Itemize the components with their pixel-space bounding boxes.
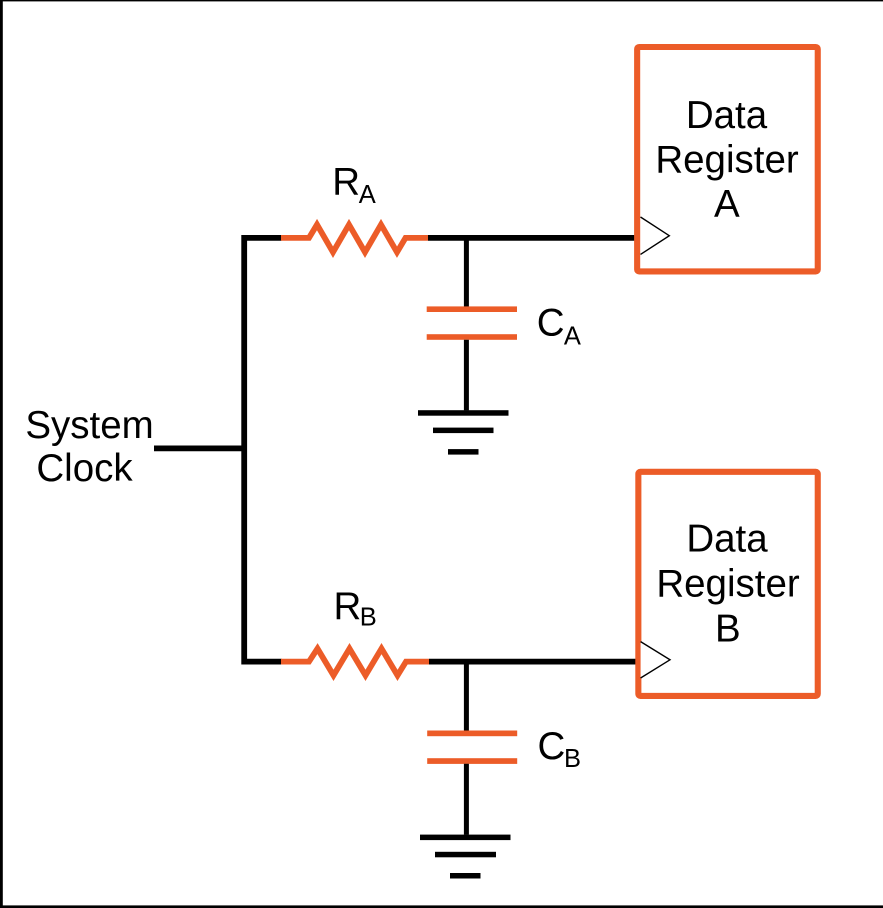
svg-text:R: R [332,161,360,204]
resistor RB [281,649,429,676]
svg-text:C: C [537,302,565,345]
label CB [538,725,582,773]
capacitor CB [427,731,517,764]
label "Data Register A" [655,94,799,226]
svg-text:Clock: Clock [36,447,133,490]
wire: capacitor CB to ground [464,764,469,835]
ground (branch B) [420,835,511,879]
svg-text:A: A [714,183,740,226]
clock input triangle (register A) [641,217,670,254]
svg-text:B: B [715,607,741,650]
svg-text:B: B [564,745,581,773]
svg-text:C: C [538,725,566,768]
node A: junction wire down to capacitor CA [464,238,469,307]
label CA [537,302,581,351]
svg-text:B: B [360,604,377,632]
label RA [332,161,376,209]
wire: capacitor CA to ground [464,340,469,411]
data register B box U2 [638,472,817,696]
svg-text:A: A [564,323,581,351]
svg-text:Data: Data [686,94,768,137]
label "System Clock" [25,404,153,490]
data register A box U1 [637,47,818,271]
svg-text:System: System [25,404,153,447]
svg-text:Data: Data [686,518,768,561]
wire: System Clock lead into clock trunk [154,445,246,451]
label RB [334,585,377,632]
node B: junction wire down to capacitor CB [464,662,469,731]
clock input triangle (register B) [641,642,670,678]
ground (branch A) [418,410,509,454]
wire: clock distribution trunk with stubs to branch A and branch B [244,238,281,662]
resistor RA [281,225,428,253]
wire: resistor RB to Data Register B clock pin [429,659,636,665]
svg-text:R: R [334,585,362,628]
svg-text:A: A [359,181,376,209]
label "Data Register B" [656,518,800,651]
svg-text:Register: Register [656,563,800,606]
svg-text:Register: Register [655,138,799,181]
wire: resistor RA to Data Register A clock pin [428,235,635,241]
capacitor CA [427,306,517,339]
